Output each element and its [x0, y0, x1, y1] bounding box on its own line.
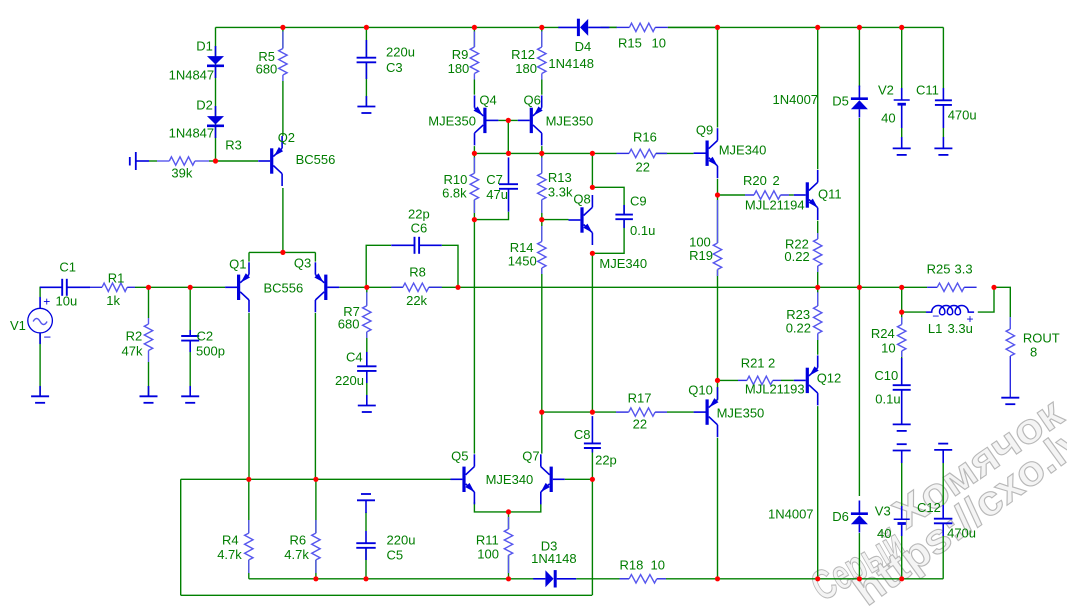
svg-text:1N4148: 1N4148	[531, 551, 577, 566]
wire R19 top	[717, 195, 719, 243]
capacitor C3 220u	[365, 40, 367, 58]
wire C6 branch left	[366, 245, 391, 287]
wire R19 down to Q10 node	[717, 270, 719, 381]
wire C4 to ground	[366, 371, 368, 406]
svg-text:D6: D6	[832, 509, 849, 524]
svg-text:0.1u: 0.1u	[630, 223, 655, 238]
junction dot	[364, 25, 369, 30]
resistor R12 180	[541, 31, 543, 47]
wire V2 top	[901, 27, 903, 88]
wire R24 top lead	[901, 312, 903, 324]
wire C5 stem	[365, 512, 367, 531]
svg-text:Q3: Q3	[294, 256, 311, 271]
wire R7 to C4	[366, 332, 368, 366]
wire top rail mid	[609, 26, 617, 28]
junction dot	[715, 378, 720, 383]
wire R20 to Q11 base	[789, 194, 794, 196]
transistor Q9 MJE340	[706, 141, 709, 166]
svg-text:4.7k: 4.7k	[217, 547, 242, 562]
wire Q1 collector down	[248, 313, 250, 479]
wire R7 top	[366, 287, 368, 305]
wire V3 to bottom rail	[901, 536, 903, 579]
ground	[893, 423, 911, 425]
wire Q11 collector up	[817, 27, 819, 169]
svg-text:1k: 1k	[106, 293, 120, 308]
junction dot	[472, 217, 477, 222]
wire base rail	[181, 478, 451, 480]
svg-text:Q6: Q6	[524, 93, 541, 108]
wire R2 bottom	[148, 362, 150, 396]
resistor R22 0.22	[817, 233, 819, 239]
svg-text:MJL21194: MJL21194	[745, 198, 805, 213]
resistor R16 22	[617, 152, 630, 154]
wire R14 down to R17 node	[541, 268, 543, 412]
junction dot	[539, 410, 544, 415]
capacitor C10 0.1u	[901, 358, 903, 385]
svg-text:180: 180	[448, 61, 470, 76]
svg-text:R12: R12	[511, 47, 535, 62]
wire Q8 base lead	[542, 219, 569, 221]
svg-text:R1: R1	[108, 271, 125, 286]
wire inv ground to V3	[901, 463, 903, 506]
resistor R7 680	[366, 292, 368, 305]
wire loop bottom	[181, 594, 592, 596]
svg-text:Q8: Q8	[573, 192, 590, 207]
svg-text:R6: R6	[290, 533, 307, 548]
wire Q7 base lead	[565, 478, 593, 480]
wire C3 to ground	[365, 62, 367, 106]
wire C12 to bottom rail	[942, 536, 944, 579]
junction dot	[506, 151, 511, 156]
wire R8 to output rail	[429, 286, 458, 288]
capacitor C11 470u	[942, 88, 944, 100]
wire Q8 collector up	[591, 153, 593, 187]
svg-text:BC556: BC556	[264, 281, 304, 296]
junction dot	[363, 576, 368, 581]
svg-text:MJE340: MJE340	[719, 143, 767, 158]
svg-text:C7: C7	[486, 172, 503, 187]
resistor R18 10	[620, 578, 630, 580]
svg-text:MJE350: MJE350	[546, 114, 594, 129]
wire C2 top	[189, 287, 191, 336]
wire V1 to C1	[40, 287, 41, 297]
wire R24 node	[901, 287, 903, 312]
capacitor C6 22p	[391, 244, 414, 246]
svg-text:R21: R21	[741, 356, 765, 371]
svg-text:ROUT: ROUT	[1023, 331, 1060, 346]
transistor Q11 MJL21194	[806, 182, 809, 207]
diode D2 1N4847	[207, 116, 224, 124]
wire Q3 base to node	[339, 286, 367, 288]
junction dot	[857, 285, 862, 290]
junction dot	[246, 477, 251, 482]
junction dot	[146, 285, 151, 290]
wire D5 column top	[858, 27, 860, 87]
svg-text:C6: C6	[411, 221, 428, 236]
ground (sideways, R3)	[135, 152, 137, 170]
junction dot	[590, 185, 595, 190]
svg-text:R2: R2	[126, 329, 143, 344]
wire L1 right up	[978, 287, 994, 312]
wire D5 to mid rail	[858, 118, 860, 287]
ground	[39, 386, 41, 396]
wire C9 top bracket	[592, 187, 624, 214]
svg-text:C1: C1	[59, 260, 76, 275]
resistor R1 1k	[90, 286, 102, 288]
svg-text:R24: R24	[871, 326, 895, 341]
svg-text:220u: 220u	[386, 45, 415, 60]
wire loop left	[180, 479, 182, 595]
wire R10C7 node down to Q5	[473, 220, 475, 454]
wire C9 bottom bracket	[592, 219, 624, 253]
junction dot	[899, 310, 904, 315]
wire bottom rail left	[249, 578, 534, 580]
diode D3 1N4148	[554, 570, 557, 587]
junction dot	[506, 576, 511, 581]
junction dot	[455, 285, 460, 290]
svg-text:C4: C4	[346, 350, 363, 365]
capacitor C12 470u	[942, 505, 944, 519]
ground	[366, 395, 368, 406]
resistor R11 100	[508, 517, 510, 529]
wire ROUT to ground	[1009, 356, 1011, 398]
wire Q3 emitter up	[314, 252, 316, 261]
junction dot	[313, 576, 318, 581]
transistor Q5 MJE340	[462, 467, 465, 492]
svg-text:470u: 470u	[948, 108, 977, 123]
wire C6 branch right	[442, 245, 458, 287]
junction dot	[715, 576, 720, 581]
wire Q4-Q6 base link	[498, 119, 517, 121]
wire C7 bottom corner	[474, 212, 508, 220]
svg-text:1N4148: 1N4148	[548, 56, 594, 71]
wire R12 to Q6 emitter	[541, 80, 543, 95]
wire out corner to ROUT	[994, 287, 1010, 329]
resistor R5 680	[282, 31, 284, 48]
wire V2 to ground	[901, 128, 903, 137]
transistor Q8 MJE340	[580, 207, 583, 232]
svg-text:Q11: Q11	[818, 187, 842, 202]
ground	[1001, 397, 1019, 399]
wire R2 top	[148, 287, 150, 318]
svg-text:Q7: Q7	[522, 449, 539, 464]
wire Q8 emitter down	[591, 253, 593, 412]
wire R6 top	[315, 479, 317, 533]
junction dot	[899, 285, 904, 290]
wire top rail right	[668, 26, 944, 28]
transistor Q10 MJE350	[706, 399, 709, 424]
svg-text:V1: V1	[10, 318, 26, 333]
svg-text:8: 8	[1030, 345, 1037, 360]
battery V2 40	[901, 88, 903, 100]
wire R13 bottom	[541, 200, 543, 220]
junction dot	[213, 158, 218, 163]
resistor R15 10	[617, 26, 630, 28]
junction dot	[364, 285, 369, 290]
wire Q11 emitter to R22	[817, 221, 819, 239]
svg-text:R11: R11	[476, 533, 499, 548]
resistor R10 6.8k	[473, 157, 475, 173]
svg-text:R17: R17	[628, 391, 652, 406]
junction dot	[815, 285, 820, 290]
wire C11 to ground	[942, 128, 944, 137]
ground	[365, 96, 367, 107]
wire D1 column	[215, 27, 217, 161]
svg-text:MJE340: MJE340	[599, 256, 647, 271]
svg-text:10: 10	[652, 35, 666, 50]
wire Q7 base node down loop	[591, 479, 593, 595]
wire D3 to R18	[576, 578, 619, 580]
svg-text:500p: 500p	[196, 344, 225, 359]
wire C2 bottom	[189, 341, 191, 397]
capacitor C4 220u	[366, 352, 368, 366]
ground	[942, 137, 944, 148]
svg-text:Q1: Q1	[229, 257, 246, 272]
wire R14 top	[541, 220, 543, 242]
wire Q10 emitter up	[717, 380, 719, 400]
wire top rail left	[216, 26, 560, 28]
wire R13 top	[541, 153, 543, 173]
resistor R13 3.3k	[541, 157, 543, 173]
svg-text:Q9: Q9	[696, 123, 713, 138]
svg-text:2: 2	[768, 356, 775, 371]
svg-text:180: 180	[515, 61, 537, 76]
transistor Q7 MJE340	[550, 467, 553, 492]
junction dot	[188, 285, 193, 290]
junction dot	[539, 217, 544, 222]
junction dot	[715, 192, 720, 197]
svg-text:MJL21193: MJL21193	[745, 382, 805, 397]
diode D1 1N4847	[207, 56, 224, 64]
svg-text:MJE350: MJE350	[717, 406, 765, 421]
resistor R4 4.7k	[248, 520, 250, 533]
junction dot	[280, 25, 285, 30]
transistor Q3 BC556	[324, 275, 327, 300]
capacitor C8 22p	[591, 416, 593, 443]
junction dot	[899, 25, 904, 30]
transistor Q4 MJE350	[483, 108, 486, 133]
wire C8 down to Q7 base node	[591, 453, 593, 480]
wire Q4 collector down	[473, 146, 475, 153]
svg-text:MJE350: MJE350	[428, 114, 476, 129]
wire emitter rail Q1-Q3	[249, 251, 315, 253]
wire R1 to Q1 base	[135, 286, 225, 288]
diode D5 1N4007	[851, 100, 868, 109]
diode D6 1N4007	[851, 515, 868, 524]
resistor R3 39k	[157, 160, 169, 162]
wire R15 to rail	[668, 26, 718, 28]
svg-text:Q4: Q4	[479, 93, 496, 108]
svg-text:R9: R9	[452, 47, 469, 62]
wire R20 row left	[718, 194, 746, 196]
svg-text:40: 40	[881, 111, 895, 126]
resistor ROUT 8	[1009, 317, 1011, 329]
svg-text:R8: R8	[409, 265, 426, 280]
wire D6 to bottom rail	[858, 533, 860, 579]
svg-text:D2: D2	[196, 98, 213, 113]
resistor R9 180	[473, 31, 475, 47]
svg-text:C12: C12	[917, 500, 941, 515]
svg-text:V3: V3	[875, 504, 891, 519]
svg-text:C9: C9	[630, 194, 647, 209]
wire VAS rail	[474, 152, 616, 154]
diode D4 1N4148	[577, 19, 580, 36]
svg-text:47u: 47u	[486, 187, 508, 202]
svg-text:R19: R19	[689, 248, 713, 263]
svg-text:D1: D1	[196, 39, 213, 54]
ground (inverted)	[361, 493, 371, 495]
resistor R20 2	[745, 194, 754, 196]
wire L1 left	[902, 311, 926, 313]
wire +rail to C11	[942, 27, 944, 88]
svg-text:10u: 10u	[56, 294, 78, 309]
svg-text:3.3k: 3.3k	[548, 185, 573, 200]
svg-text:1N4007: 1N4007	[773, 92, 819, 107]
wire Q5 emitter corner	[474, 502, 508, 512]
wire R21 row left	[718, 379, 739, 381]
wire Q9 emitter down	[717, 179, 719, 195]
wire R10 bottom	[473, 200, 475, 220]
svg-text:Q10: Q10	[688, 383, 713, 398]
svg-text:L1: L1	[928, 321, 942, 336]
svg-text:C2: C2	[197, 329, 214, 344]
svg-text:22p: 22p	[408, 207, 430, 222]
resistor R17 22	[616, 411, 629, 413]
wire R23 top	[817, 287, 819, 306]
junction dot	[280, 250, 285, 255]
wire Q12 collector down	[817, 406, 819, 579]
junction dot	[991, 285, 996, 290]
junction dot	[857, 576, 862, 581]
svg-text:Q2: Q2	[278, 130, 295, 145]
wire C3 top	[365, 27, 367, 57]
svg-text:1N4847: 1N4847	[169, 68, 215, 83]
svg-text:MJE340: MJE340	[486, 472, 534, 487]
svg-text:−: −	[44, 330, 52, 345]
resistor R14 1450	[541, 226, 543, 242]
svg-text:R15: R15	[618, 35, 642, 50]
svg-text:22k: 22k	[406, 293, 427, 308]
svg-text:22p: 22p	[595, 453, 617, 468]
capacitor C2 500p	[189, 330, 191, 336]
transistor Q6 MJE350	[530, 108, 533, 133]
wire R5 top	[282, 27, 284, 48]
wire C5 bottom	[365, 548, 367, 579]
wire R11 bottom	[508, 555, 510, 579]
wire main mid rail	[458, 286, 927, 288]
junction dot	[313, 477, 318, 482]
wire R3 node to Q2 base	[216, 160, 259, 162]
resistor R6 4.7k	[315, 520, 317, 533]
svg-text:C10: C10	[874, 368, 898, 383]
svg-text:220u: 220u	[387, 533, 416, 548]
svg-text:Q12: Q12	[817, 371, 842, 386]
wire Q1 emitter up	[248, 252, 250, 261]
junction dot	[506, 509, 511, 514]
svg-text:0.1u: 0.1u	[875, 392, 900, 407]
svg-text:10: 10	[881, 341, 895, 356]
wire R3 lead to node	[209, 160, 216, 162]
transistor Q1 BC556	[237, 275, 240, 300]
wire V1 bottom	[39, 333, 41, 396]
junction dot	[472, 25, 477, 30]
junction dot	[815, 576, 820, 581]
source V1	[28, 308, 53, 333]
wire Q3 collector down	[314, 313, 316, 479]
wire D4 right to R15	[601, 26, 617, 28]
svg-text:R20: R20	[743, 173, 767, 188]
junction dot	[899, 576, 904, 581]
resistor R24 10	[901, 317, 903, 324]
svg-text:1N4847: 1N4847	[169, 126, 215, 141]
wire R16 lead	[656, 152, 694, 154]
wire R9 top	[473, 27, 475, 47]
svg-text:4.7k: 4.7k	[284, 547, 309, 562]
junction dot	[815, 25, 820, 30]
capacitor C9 0.1u	[623, 205, 625, 215]
wire R22 bottom	[817, 266, 819, 287]
wire Q2 collector down	[282, 188, 284, 252]
svg-text:C8: C8	[574, 427, 591, 442]
capacitor C7 47u	[508, 157, 510, 184]
wire Q10 collector down	[717, 438, 719, 579]
svg-text:3.3u: 3.3u	[948, 321, 973, 336]
inductor L1	[926, 306, 974, 315]
svg-text:6.8k: 6.8k	[442, 186, 467, 201]
svg-text:47k: 47k	[122, 344, 143, 359]
junction dot	[590, 151, 595, 156]
junction dot	[539, 25, 544, 30]
capacitor C5 220u	[365, 531, 367, 543]
wire Q6 collector down	[541, 146, 543, 153]
svg-text:R16: R16	[633, 130, 657, 145]
junction dot	[715, 25, 720, 30]
svg-text:40: 40	[877, 526, 891, 541]
wire R23 to Q12 emitter	[817, 334, 819, 355]
svg-text:R13: R13	[548, 170, 572, 185]
svg-text:3.3: 3.3	[955, 262, 973, 277]
svg-text:D5: D5	[832, 94, 849, 109]
battery V3 40	[901, 506, 903, 519]
capacitor C1 10u	[40, 286, 62, 288]
svg-text:2: 2	[773, 173, 780, 188]
svg-text:R4: R4	[222, 533, 239, 548]
wire bottom rail right	[718, 578, 944, 580]
resistor R8 22k	[391, 286, 403, 288]
junction dot	[590, 477, 595, 482]
junction dot	[506, 118, 511, 123]
svg-text:C5: C5	[387, 548, 404, 563]
resistor R21 2	[738, 379, 747, 381]
wire Q9 collector up	[717, 27, 719, 127]
svg-text:R18: R18	[620, 558, 644, 573]
transistor Q12 MJL21193	[806, 368, 809, 393]
svg-text:0.22: 0.22	[784, 249, 809, 264]
wire R11 top	[508, 512, 510, 529]
wire R21 to Q12 base	[781, 379, 794, 381]
svg-text:Q5: Q5	[451, 449, 468, 464]
ground	[148, 386, 150, 396]
svg-text:1N4007: 1N4007	[768, 507, 814, 522]
svg-text:C3: C3	[386, 60, 403, 75]
svg-text:22: 22	[636, 160, 650, 175]
wire R17 row	[542, 411, 616, 413]
resistor R23 0.22	[817, 292, 819, 306]
svg-text:1450: 1450	[508, 254, 537, 269]
resistor R19 100	[717, 200, 719, 243]
wire R24 to C10	[901, 351, 903, 359]
svg-text:680: 680	[338, 317, 360, 332]
